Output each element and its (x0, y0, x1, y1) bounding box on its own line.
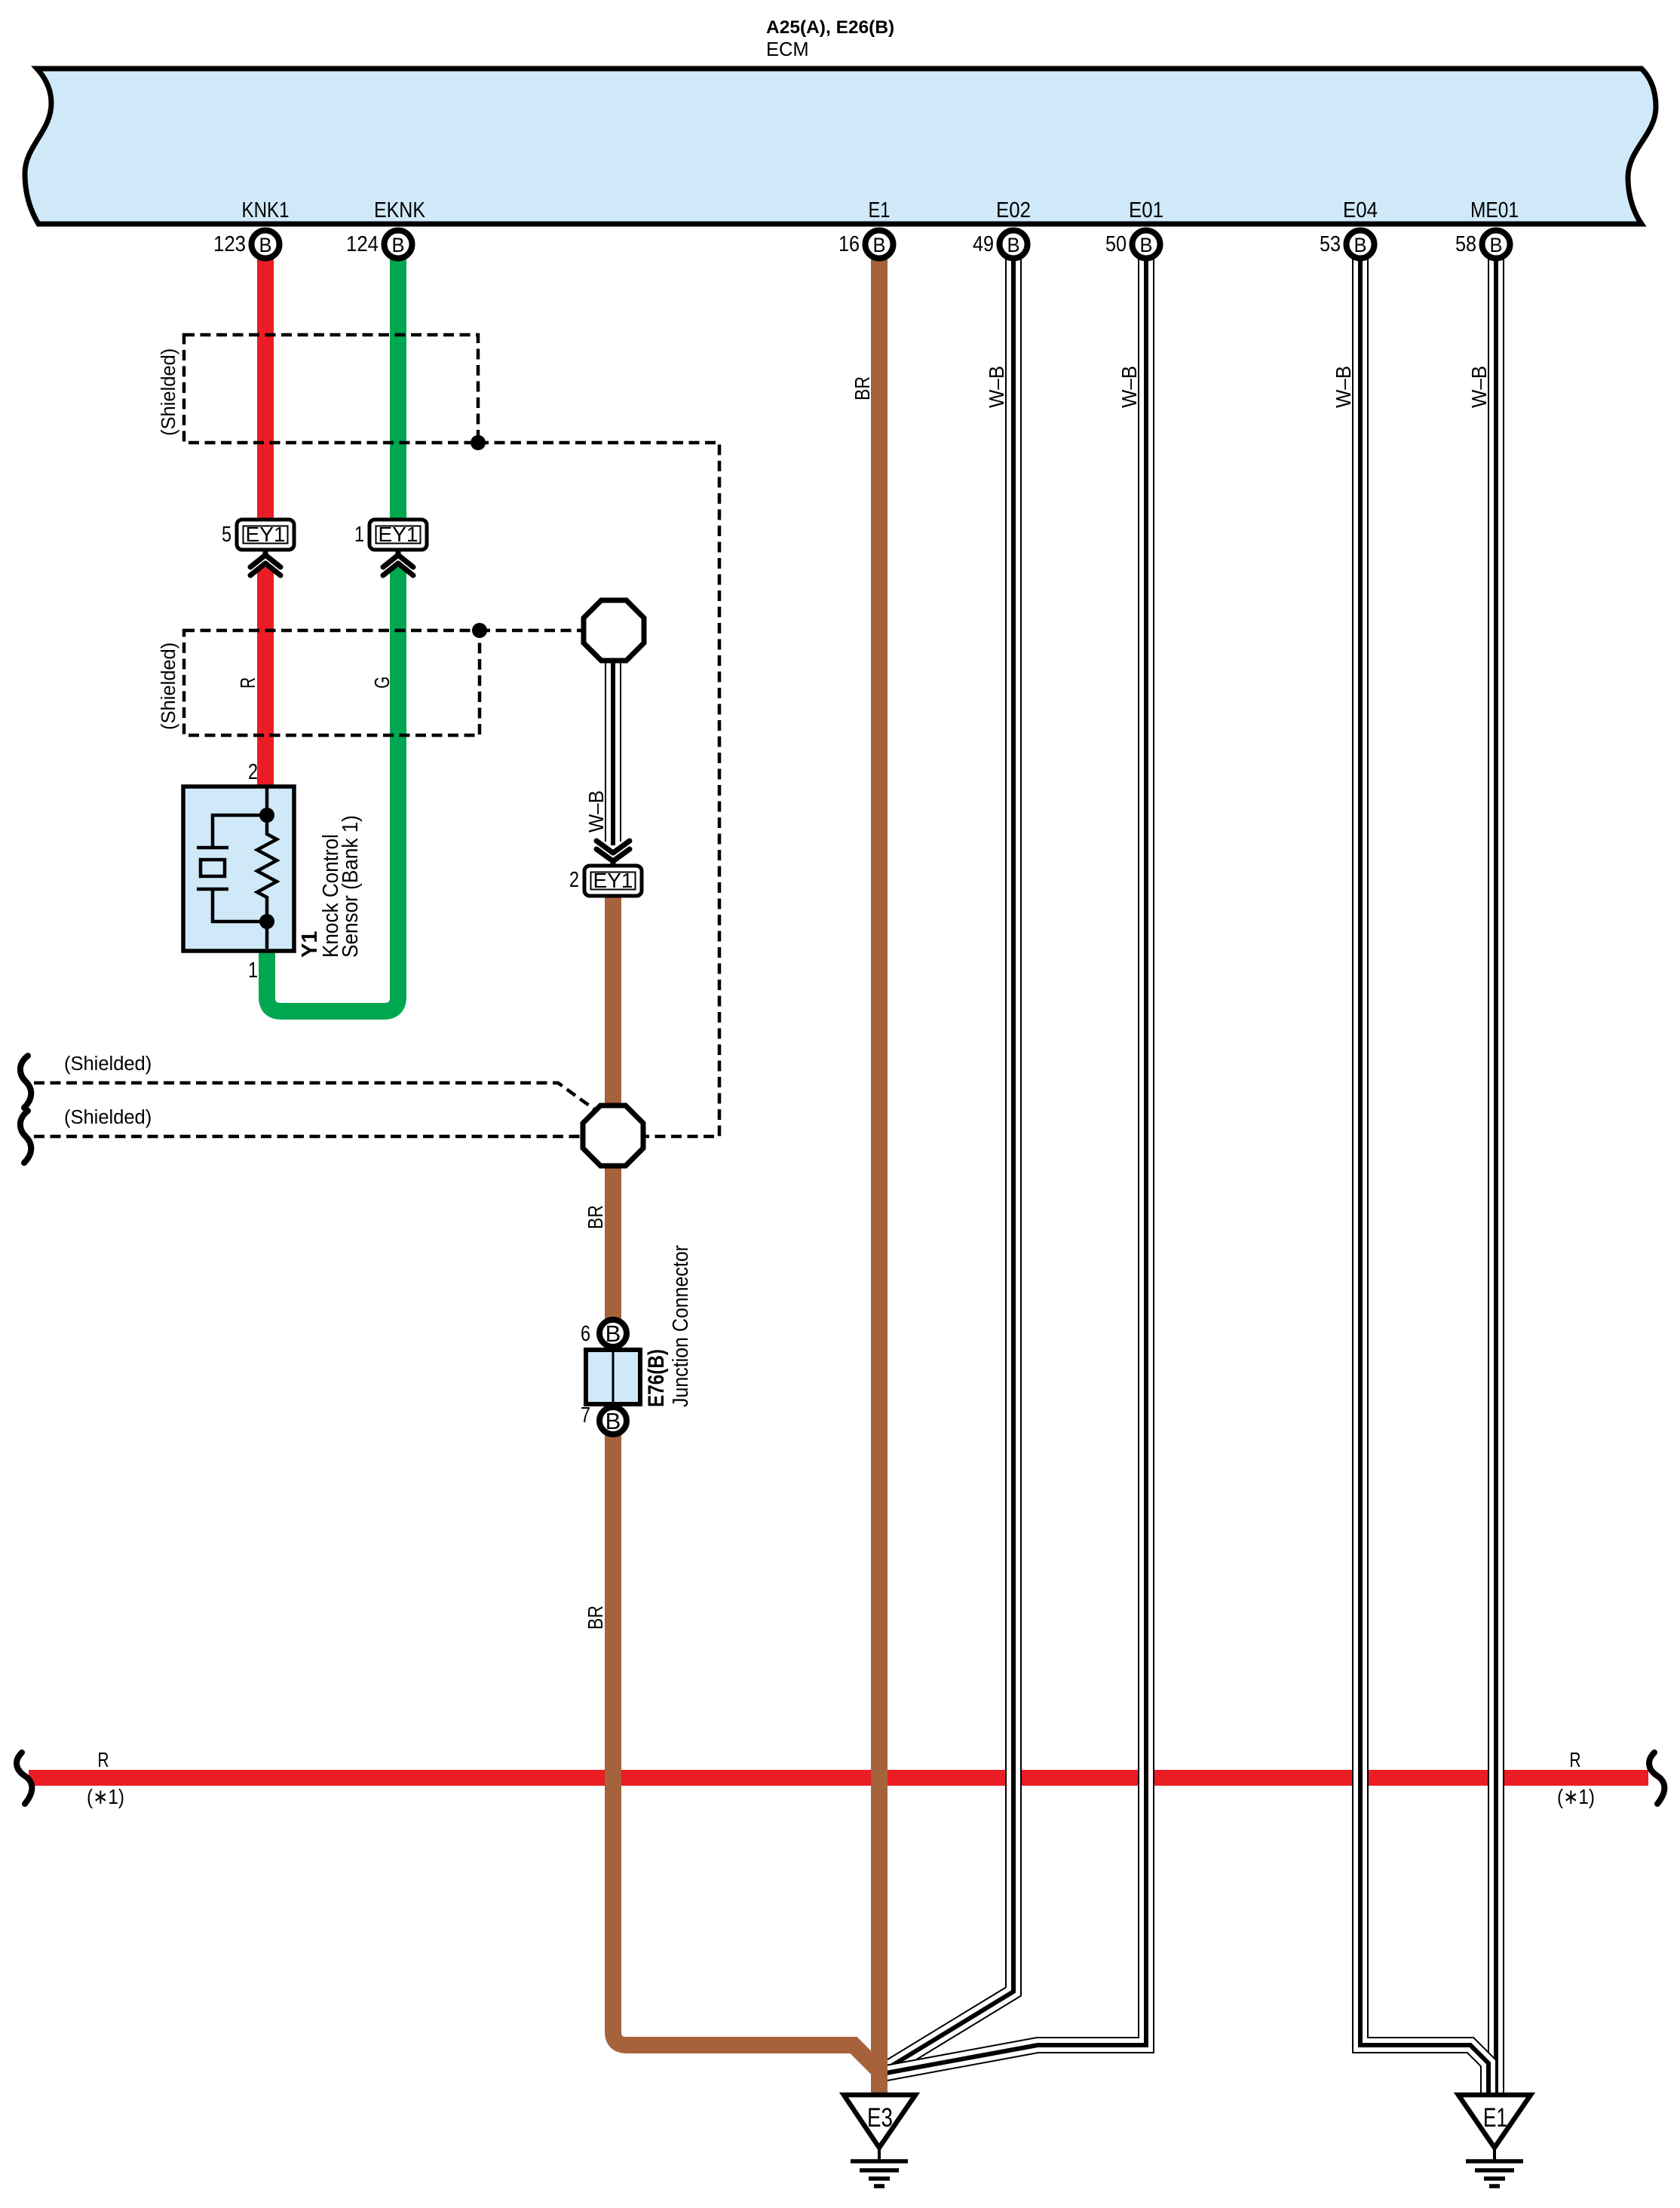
ECM title (766, 17, 894, 60)
svg-text:B: B (873, 234, 886, 256)
svg-text:BR: BR (584, 1205, 607, 1229)
junction connector E76(B) circle B pin6 (581, 1320, 627, 1347)
shield octagon 2 (583, 1106, 643, 1166)
chevron arrows below EY1 pin5 (250, 548, 281, 575)
terminal circle B pin123 (213, 231, 280, 259)
dashed shielded line 2 bottom left (34, 1135, 584, 1139)
sensor junction dot bottom (259, 914, 274, 929)
svg-text:EY1: EY1 (593, 869, 633, 892)
svg-text:KNK1: KNK1 (242, 198, 290, 222)
svg-text:1: 1 (248, 958, 258, 983)
svg-text:W–B: W–B (584, 790, 608, 833)
svg-text:E01: E01 (1129, 198, 1163, 222)
svg-text:124: 124 (346, 232, 379, 256)
sensor internal resistor (257, 788, 277, 949)
chevron arrows below EY1 pin1 (383, 548, 413, 575)
svg-text:6: 6 (581, 1322, 590, 1346)
wire R horizontal (*1) (29, 1770, 1648, 1786)
svg-text:A25(A), E26(B): A25(A), E26(B) (766, 17, 894, 38)
svg-text:E04: E04 (1343, 198, 1378, 222)
dashed shielded line 1 bottom left (34, 1083, 596, 1111)
dashed link box2 to octagon1 (480, 629, 585, 633)
svg-text:Junction Connector: Junction Connector (669, 1245, 693, 1407)
svg-text:123: 123 (213, 232, 246, 256)
svg-text:EKNK: EKNK (374, 198, 426, 222)
svg-text:E1: E1 (869, 198, 891, 222)
svg-text:W–B: W–B (1332, 366, 1355, 408)
svg-text:2: 2 (569, 868, 579, 892)
svg-text:B: B (1490, 234, 1503, 256)
svg-text:B: B (1007, 234, 1020, 256)
svg-text:BR: BR (584, 1605, 607, 1630)
svg-text:(∗1): (∗1) (1557, 1785, 1595, 1808)
svg-text:B: B (1354, 234, 1367, 256)
ground E3 (844, 2095, 915, 2186)
ECM box A25(A),E26(B) (25, 69, 1656, 224)
connector EY1 pin5 (222, 520, 294, 550)
svg-text:E02: E02 (996, 198, 1031, 222)
svg-text:EY1: EY1 (379, 523, 418, 546)
svg-text:ME01: ME01 (1470, 198, 1519, 222)
break squiggle red line left (17, 1753, 32, 1804)
svg-text:R: R (1570, 1748, 1581, 1771)
svg-text:BR: BR (851, 376, 874, 400)
svg-text:1: 1 (354, 523, 364, 547)
connector EY1 pin1 (354, 520, 427, 550)
wire W-B ME01 pin58 (1488, 259, 1504, 2093)
svg-text:16: 16 (838, 232, 860, 256)
shield octagon 1 (584, 600, 644, 661)
wire G EKNK upper (390, 259, 406, 550)
svg-text:Sensor (Bank 1): Sensor (Bank 1) (339, 815, 363, 958)
svg-text:G: G (370, 676, 394, 688)
terminal circle B pin124 (346, 231, 412, 259)
terminal circle B pin53 (1320, 231, 1375, 259)
dashed shield box 1 (184, 335, 478, 443)
svg-text:E1: E1 (1483, 2103, 1507, 2133)
svg-text:B: B (392, 234, 405, 256)
break squiggle red line right (1649, 1753, 1664, 1804)
wire W-B E04 pin53 (1360, 259, 1488, 2093)
ground E1 (1458, 2095, 1531, 2186)
junction dot shield 1 (471, 435, 486, 450)
svg-text:5: 5 (222, 523, 231, 547)
svg-text:50: 50 (1105, 232, 1127, 256)
svg-text:E76(B): E76(B) (644, 1349, 669, 1407)
svg-text:58: 58 (1455, 232, 1476, 256)
wire W-B E01 pin50 (882, 259, 1146, 2074)
junction connector E76(B) circle B pin7 (581, 1403, 627, 1434)
svg-text:R: R (236, 677, 259, 688)
wire BR lower branch (613, 1434, 879, 2071)
wire R KNK1 upper (257, 259, 274, 550)
terminal circle B pin50 (1105, 231, 1160, 259)
svg-text:B: B (1140, 234, 1153, 256)
sensor internal piezo element (197, 815, 267, 922)
svg-text:(Shielded): (Shielded) (64, 1053, 152, 1075)
svg-text:2: 2 (248, 760, 258, 784)
wire BR E1 pin16 (871, 259, 888, 2093)
svg-text:B: B (605, 1320, 621, 1347)
sensor junction dot top (259, 808, 274, 823)
dashed shield box 2 (184, 630, 480, 735)
svg-text:(Shielded): (Shielded) (158, 348, 179, 436)
knock control sensor Y1 box (183, 787, 294, 951)
wire W-B E02 pin49 (882, 259, 1013, 2072)
terminal circle B pin16 (838, 231, 894, 259)
chevron arrows above EY1 pin2 (596, 841, 630, 867)
svg-text:B: B (605, 1408, 621, 1434)
svg-text:49: 49 (973, 232, 994, 256)
svg-text:(Shielded): (Shielded) (64, 1107, 152, 1128)
svg-text:(Shielded): (Shielded) (158, 642, 179, 730)
svg-text:W–B: W–B (1467, 366, 1491, 408)
wire W-B shield drain from octagon1 (605, 656, 621, 845)
junction dot shield 2 (472, 623, 487, 638)
terminal circle B pin58 (1455, 231, 1510, 259)
terminal circle B pin49 (973, 231, 1028, 259)
svg-text:7: 7 (581, 1403, 590, 1428)
svg-text:W–B: W–B (985, 366, 1008, 408)
wire BR middle segment (605, 894, 621, 1320)
wire G EKNK lower (267, 567, 398, 1011)
svg-text:(∗1): (∗1) (87, 1785, 124, 1808)
svg-text:EY1: EY1 (246, 523, 286, 546)
svg-text:53: 53 (1320, 232, 1341, 256)
break squiggle shielded line 2 (20, 1111, 31, 1163)
connector EY1 pin2 (569, 866, 642, 896)
svg-text:ECM: ECM (766, 39, 809, 60)
svg-text:B: B (259, 234, 272, 256)
wire R KNK1 lower (257, 567, 274, 789)
svg-text:W–B: W–B (1117, 366, 1141, 408)
break squiggle shielded line 1 (20, 1056, 31, 1108)
dashed shield drain link (478, 443, 719, 1136)
junction connector E76(B) body (586, 1350, 640, 1404)
svg-text:E3: E3 (867, 2103, 893, 2133)
svg-text:R: R (98, 1748, 109, 1771)
